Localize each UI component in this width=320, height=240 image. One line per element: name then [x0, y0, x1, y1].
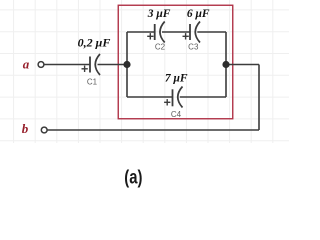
svg-text:0,2 μF: 0,2 μF	[78, 35, 111, 49]
svg-text:6 μF: 6 μF	[187, 8, 210, 20]
svg-text:3 μF: 3 μF	[147, 8, 171, 20]
svg-text:C3: C3	[188, 43, 199, 52]
svg-text:b: b	[22, 121, 29, 136]
svg-text:C2: C2	[155, 43, 166, 52]
svg-text:(a): (a)	[124, 166, 142, 188]
svg-text:a: a	[23, 57, 30, 72]
svg-text:C4: C4	[171, 110, 182, 119]
svg-text:C1: C1	[87, 78, 98, 87]
svg-text:7 μF: 7 μF	[165, 73, 188, 85]
